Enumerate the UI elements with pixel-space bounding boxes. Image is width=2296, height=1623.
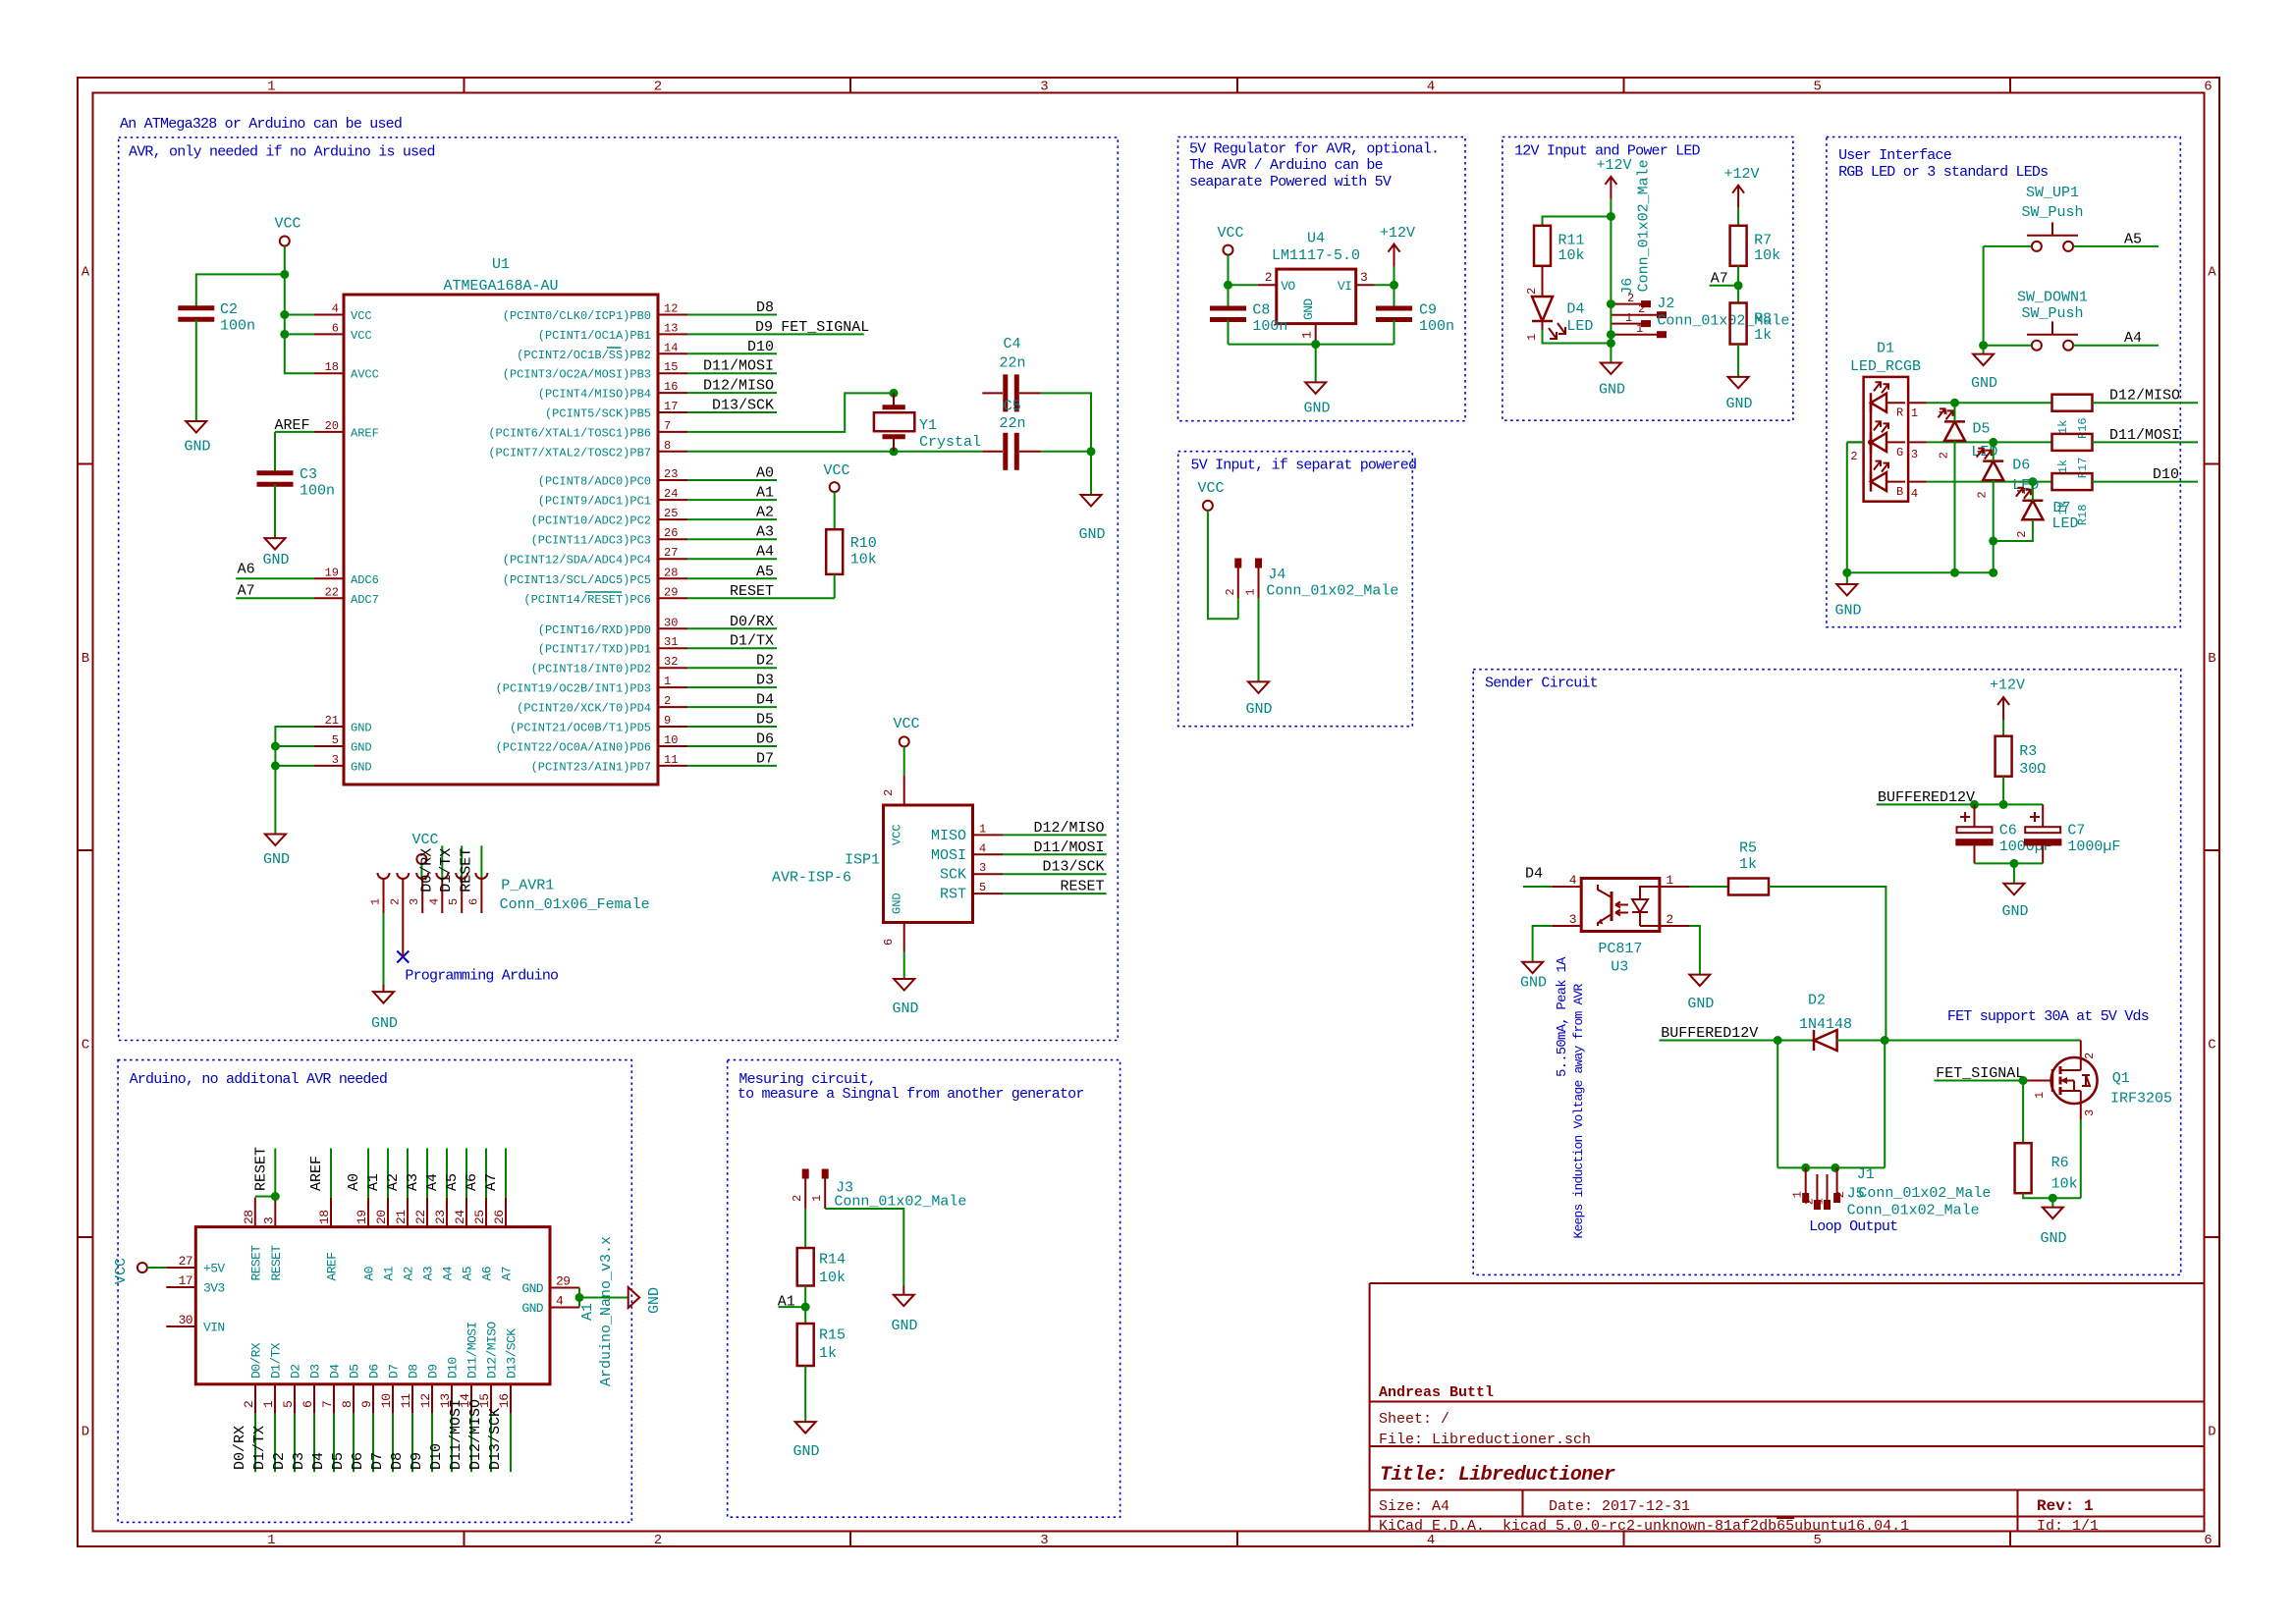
svg-text:3: 3 — [408, 898, 421, 905]
A1 pin 23 (A4) top — [446, 1198, 448, 1227]
junction GND (A1) — [575, 1293, 584, 1302]
wire LED GND rail — [1847, 571, 1994, 573]
svg-text:(PCINT13/SCL/ADC5)PC5: (PCINT13/SCL/ADC5)PC5 — [503, 573, 651, 587]
wire loop right down — [1884, 1041, 1886, 1168]
svg-text:30: 30 — [664, 616, 678, 629]
wire to ground (12V input) — [1610, 344, 1612, 363]
ground (P_AVR1) — [373, 992, 394, 1003]
svg-text:100n: 100n — [300, 483, 335, 500]
U1 pin PC6 RESET overline — [585, 591, 623, 593]
connector ISP1 AVR-ISP-6 body — [884, 805, 973, 923]
U1 pin 25 ((PCINT10/ADC2)PC2) right — [658, 518, 687, 520]
svg-text:U3: U3 — [1611, 958, 1628, 975]
D1 internal led G — [1870, 432, 1873, 452]
svg-text:2: 2 — [1850, 450, 1857, 463]
svg-text:J2: J2 — [1657, 296, 1674, 312]
svg-text:10k: 10k — [2051, 1176, 2078, 1193]
svg-text:1k: 1k — [1754, 327, 1772, 344]
svg-text:Conn_01x06_Female: Conn_01x06_Female — [500, 896, 650, 913]
svg-text:D5: D5 — [348, 1365, 362, 1379]
U1 pin 16 ((PCINT4/MISO)PB4) right — [658, 392, 687, 394]
svg-text:26: 26 — [492, 1211, 507, 1224]
svg-text:8: 8 — [664, 439, 671, 453]
junction D7 row — [2028, 477, 2037, 486]
wire P_AVR1 pin1 to GND — [383, 913, 385, 984]
A1 pin 10 (D7) bottom — [392, 1384, 394, 1414]
wire A1 to label D12/MISO — [490, 1414, 492, 1472]
D1 pin 2 (common) — [1847, 441, 1864, 443]
svg-text:5: 5 — [1813, 80, 1821, 95]
svg-text:IRF3205: IRF3205 — [2110, 1090, 2172, 1107]
svg-text:15: 15 — [664, 360, 678, 374]
svg-text:D7: D7 — [756, 750, 774, 767]
5V Regulator dashed box — [1178, 137, 1466, 421]
wire U1 XTAL2 to crystal bottom — [687, 451, 894, 453]
svg-text:(PCINT18/INT0)PD2: (PCINT18/INT0)PD2 — [531, 663, 651, 676]
A1 pin 29 (GND) right — [550, 1287, 579, 1289]
svg-text:22: 22 — [413, 1211, 428, 1224]
junction +12V/R11 — [1607, 212, 1615, 221]
connector J4 Conn_01x02_Male pin2 — [1234, 559, 1241, 568]
svg-text:D3: D3 — [756, 673, 774, 689]
wire D6 to GND rail — [1993, 480, 1995, 572]
svg-text:RESET: RESET — [1060, 879, 1104, 895]
led D7 — [2022, 500, 2043, 503]
U1 pin 14 ((PCINT2/OC1B/SS)PB2) right — [658, 352, 687, 354]
P_AVR1 pin 4 socket — [436, 873, 448, 879]
svg-text:VCC: VCC — [274, 216, 301, 233]
svg-text:(PCINT3/OC2A/MOSI)PB3: (PCINT3/OC2A/MOSI)PB3 — [503, 368, 651, 382]
svg-text:D8: D8 — [407, 1365, 421, 1379]
svg-text:GND: GND — [1301, 298, 1316, 320]
D1 pin 1 — [1908, 402, 1927, 404]
power symbol VCC (U4) — [1224, 245, 1233, 255]
wire A1 label to A1 — [387, 1149, 389, 1198]
svg-text:R14: R14 — [819, 1251, 846, 1268]
P_AVR1 pin 2 socket — [397, 873, 409, 879]
svg-text:D5: D5 — [756, 712, 774, 729]
wire P_AVR1 to label RESET — [480, 845, 482, 878]
svg-text:Andreas Buttl: Andreas Buttl — [1379, 1384, 1494, 1401]
transistor Q1 IRF3205 — [2051, 1057, 2098, 1104]
frame column ticks bottom — [464, 1532, 465, 1547]
ISP1 pin 2 (VCC) top — [903, 776, 905, 805]
svg-text:A0: A0 — [346, 1173, 362, 1191]
svg-text:2: 2 — [654, 80, 662, 95]
svg-text:Size: A4: Size: A4 — [1379, 1498, 1449, 1515]
svg-text:GND: GND — [892, 1001, 918, 1017]
A1 pin 22 (A3) top — [426, 1198, 428, 1227]
svg-text:R7: R7 — [1754, 233, 1772, 249]
svg-text:19: 19 — [355, 1211, 369, 1224]
svg-text:4: 4 — [332, 302, 339, 316]
junction J6 pin2 — [1607, 299, 1615, 308]
P_AVR1 pin 5 socket — [456, 873, 467, 879]
svg-text:Loop Output: Loop Output — [1809, 1218, 1897, 1235]
U1 pin 7 ((PCINT6/XTAL1/TOSC1)PB6) right — [658, 431, 687, 433]
svg-text:3: 3 — [1911, 448, 1918, 461]
svg-text:C2: C2 — [220, 301, 238, 318]
ground (R8) — [1728, 377, 1749, 389]
led D1 LED_RCGB body — [1864, 377, 1909, 502]
svg-text:A3: A3 — [756, 524, 774, 541]
svg-text:+12V: +12V — [1990, 677, 2025, 694]
svg-text:1: 1 — [664, 675, 671, 688]
svg-text:A1: A1 — [382, 1266, 397, 1280]
svg-text:A4: A4 — [2124, 330, 2142, 347]
wire SW_DOWN1 left — [1984, 345, 2032, 347]
svg-text:SW_DOWN1: SW_DOWN1 — [2017, 289, 2088, 305]
svg-text:(PCINT2/OC1B/SS)PB2: (PCINT2/OC1B/SS)PB2 — [517, 349, 651, 362]
wire GND rail down — [1090, 452, 1092, 495]
svg-text:GND: GND — [891, 1318, 917, 1334]
svg-text:D8: D8 — [389, 1452, 406, 1470]
wire U1 XTAL1 to crystal — [687, 393, 894, 432]
svg-text:P_AVR1: P_AVR1 — [501, 878, 554, 894]
A1 pin 18 (AREF) top — [330, 1198, 332, 1227]
optocoupler U3 PC817 body — [1581, 879, 1660, 932]
svg-text:9: 9 — [664, 714, 671, 728]
U1 pin 9 ((PCINT21/OC0B/T1)PD5) right — [658, 726, 687, 728]
svg-text:J1: J1 — [1857, 1166, 1875, 1183]
ground (R15) — [795, 1422, 816, 1434]
svg-text:J4: J4 — [1268, 567, 1285, 583]
svg-text:D5: D5 — [330, 1452, 347, 1470]
wire C3 to GND — [274, 484, 276, 538]
junction J2 pin1 — [1607, 330, 1615, 339]
svg-text:D2: D2 — [1808, 993, 1826, 1009]
junction switch GND — [1979, 341, 1988, 350]
wire VCC to ISP1 pin2 — [903, 746, 905, 776]
svg-text:22: 22 — [325, 585, 339, 599]
svg-text:FET_SIGNAL: FET_SIGNAL — [1936, 1065, 2024, 1082]
svg-text:D1/TX: D1/TX — [438, 848, 455, 893]
svg-text:19: 19 — [325, 566, 339, 579]
wire VCC to VO net — [1228, 255, 1230, 286]
svg-text:3: 3 — [979, 861, 986, 875]
frame row ticks left — [78, 463, 93, 465]
wire RESET label to A1 — [274, 1149, 276, 1198]
wire GND rail (U4) — [1229, 344, 1394, 346]
svg-text:AVR, only needed if no Arduino: AVR, only needed if no Arduino is used — [129, 144, 435, 161]
svg-text:D0/RX: D0/RX — [232, 1426, 248, 1470]
svg-text:AREF: AREF — [325, 1253, 340, 1281]
A1 pin 26 (A7) top — [505, 1198, 507, 1227]
wire AREF to C3 — [274, 432, 276, 472]
AVR section dashed box — [119, 137, 1119, 1041]
svg-text:BUFFERED12V: BUFFERED12V — [1661, 1025, 1758, 1042]
wire A1 to label D0/RX — [254, 1414, 256, 1472]
U1 pin 5 (GND) left — [314, 745, 344, 747]
svg-text:D4: D4 — [310, 1452, 327, 1470]
wire to ground (caps) — [2013, 863, 2015, 883]
wire A1 to label D3 — [313, 1414, 315, 1472]
svg-text:D4: D4 — [1566, 301, 1584, 318]
svg-text:2: 2 — [2015, 531, 2029, 538]
U1 pin 4 (VCC) left — [314, 314, 344, 316]
svg-text:A2: A2 — [385, 1173, 402, 1191]
svg-text:RESET: RESET — [458, 848, 474, 893]
wire U1 to label D3 — [687, 686, 777, 688]
ISP1 pin 6 (GND) bottom — [903, 923, 905, 952]
wire A1 to label D6 — [372, 1414, 374, 1472]
svg-text:C6: C6 — [1999, 822, 2017, 839]
svg-text:+5V: +5V — [203, 1262, 225, 1276]
wire switch commons — [1983, 246, 1985, 346]
svg-text:1: 1 — [369, 898, 383, 905]
svg-text:(PCINT20/XCK/T0)PD4: (PCINT20/XCK/T0)PD4 — [517, 702, 651, 716]
crystal Y1 — [893, 393, 895, 406]
svg-text:C8: C8 — [1252, 302, 1270, 319]
wire A1 to label D10 — [451, 1414, 453, 1472]
svg-text:VCC: VCC — [351, 309, 372, 323]
wire R6 to source rail — [2023, 1193, 2081, 1198]
svg-text:RESET: RESET — [248, 1245, 263, 1281]
U1 pin 3 (GND) left — [314, 765, 344, 767]
wire D2 to Q1 drain rail — [1837, 1040, 2081, 1042]
wire A1 to label D4 — [333, 1414, 335, 1472]
led D4 — [1542, 266, 1544, 297]
ground (LEDs) — [1836, 584, 1857, 596]
svg-text:C5: C5 — [1004, 399, 1021, 415]
svg-text:31: 31 — [664, 635, 678, 649]
svg-text:+12V: +12V — [1723, 166, 1759, 183]
svg-text:1: 1 — [1813, 1198, 1827, 1205]
wire label D4 to U3 pin4 — [1523, 886, 1552, 888]
wire R7 to R8 — [1737, 266, 1739, 303]
wire to ground (Q1) — [2051, 1198, 2053, 1207]
U3 internal transistor — [1611, 892, 1613, 921]
junction RESET (A1) — [271, 1192, 280, 1201]
connector J2 Conn_01x02_Male pin2 — [1611, 314, 1657, 316]
U1 pin 30 ((PCINT16/RXD)PD0) right — [658, 627, 687, 629]
svg-text:D2: D2 — [271, 1452, 288, 1470]
svg-text:J5: J5 — [1847, 1186, 1865, 1203]
svg-text:R8: R8 — [1754, 311, 1772, 328]
svg-text:D11/MOSI: D11/MOSI — [2109, 427, 2180, 444]
svg-text:ISP1: ISP1 — [845, 852, 880, 869]
svg-text:6: 6 — [466, 898, 480, 905]
D1 internal led B — [1870, 472, 1873, 492]
svg-text:R5: R5 — [1739, 840, 1757, 857]
svg-text:D6: D6 — [756, 731, 774, 748]
ground (U3 pin3) — [1522, 962, 1543, 974]
svg-text:C9: C9 — [1419, 302, 1437, 319]
svg-text:(PCINT16/RXD)PD0: (PCINT16/RXD)PD0 — [538, 623, 651, 637]
svg-text:VCC: VCC — [823, 462, 849, 479]
svg-text:C4: C4 — [1004, 336, 1021, 352]
svg-text:Arduino, no additonal AVR need: Arduino, no additonal AVR needed — [130, 1071, 387, 1088]
U1 pin 22 (ADC7) left — [314, 597, 344, 599]
svg-text:29: 29 — [664, 585, 678, 599]
svg-text:(PCINT9/ADC1)PC1: (PCINT9/ADC1)PC1 — [538, 495, 651, 509]
U1 pin 15 ((PCINT3/OC2A/MOSI)PB3) right — [658, 372, 687, 374]
svg-text:2: 2 — [791, 1195, 804, 1202]
svg-text:D9: D9 — [755, 319, 773, 336]
wire U1 to label D12/MISO — [687, 392, 777, 394]
wire U1 to label A5 — [687, 577, 777, 579]
svg-text:(PCINT21/OC0B/T1)PD5: (PCINT21/OC0B/T1)PD5 — [510, 722, 651, 735]
svg-text:10k: 10k — [850, 552, 877, 568]
svg-text:D: D — [2208, 1425, 2215, 1440]
svg-text:GND: GND — [1520, 975, 1547, 992]
wire to ground (LEDs) — [1846, 572, 1848, 584]
ground (A1) — [629, 1287, 640, 1308]
svg-text:ATMEGA168A-AU: ATMEGA168A-AU — [443, 278, 558, 295]
svg-text:D7: D7 — [387, 1365, 402, 1379]
svg-text:25: 25 — [664, 507, 678, 520]
svg-text:A5: A5 — [461, 1267, 475, 1280]
svg-text:2: 2 — [664, 694, 671, 708]
wire C6/C7 bottom rail — [1975, 862, 2044, 864]
svg-text:D13/SCK: D13/SCK — [487, 1408, 504, 1470]
svg-text:GND: GND — [351, 760, 372, 774]
wire R10 to RESET net — [834, 574, 836, 598]
svg-text:23: 23 — [433, 1211, 448, 1224]
svg-text:3: 3 — [1360, 270, 1367, 285]
wire VO to U4 pin2 — [1229, 284, 1258, 286]
connector J4 pin1 — [1255, 559, 1262, 568]
svg-text:1: 1 — [2015, 488, 2029, 495]
svg-text:D13/SCK: D13/SCK — [505, 1328, 519, 1379]
svg-text:ADC6: ADC6 — [351, 573, 379, 587]
power symbol VCC (R10) — [830, 482, 840, 492]
A1 pin 3 (RESET) top — [274, 1198, 276, 1227]
svg-text:(PCINT6/XTAL1/TOSC1)PB6: (PCINT6/XTAL1/TOSC1)PB6 — [488, 426, 651, 440]
wire A0 label to A1 — [367, 1149, 369, 1198]
wire J3 pin2 to R14 — [804, 1209, 806, 1248]
wire loop output rail — [1777, 1166, 1885, 1168]
svg-text:GND: GND — [1599, 382, 1625, 399]
wire U1 to label A0 — [687, 479, 777, 481]
U1 pin 17 ((PCINT5/SCK)PB5) right — [658, 411, 687, 413]
wire VCC to A1 pin27 — [147, 1267, 166, 1269]
svg-text:A7: A7 — [483, 1173, 500, 1191]
power symbol VCC (J4) — [1203, 501, 1213, 511]
junction J5 pin1 — [1801, 1163, 1810, 1172]
svg-text:12: 12 — [418, 1394, 433, 1408]
power symbol +12V (input) — [1605, 177, 1616, 199]
wire label A7 to R7/R8 — [1710, 285, 1739, 287]
wire A1 to label D9 — [431, 1414, 433, 1472]
wire U1 to label D5 — [687, 726, 777, 728]
wire J3 pin1 to GND — [825, 1209, 903, 1286]
junction R3 bottom — [1999, 800, 2008, 809]
U1 pin 10 ((PCINT22/OC0A/AIN0)PD6) right — [658, 745, 687, 747]
A1 pin 2 (D0/RX) bottom — [254, 1384, 256, 1414]
resistor R17 1k — [2052, 434, 2093, 451]
svg-text:(PCINT10/ADC2)PC2: (PCINT10/ADC2)PC2 — [531, 514, 651, 528]
svg-text:10k: 10k — [1558, 247, 1585, 264]
wire U1 to label D10 — [687, 352, 777, 354]
wire C8 bottom — [1228, 320, 1230, 345]
svg-text:SW_UP1: SW_UP1 — [2026, 185, 2079, 201]
wire D7 top — [2032, 482, 2034, 501]
wire D1 pin2 stub — [1847, 441, 1864, 443]
wire A1 to label D1/TX — [274, 1414, 276, 1472]
connector J1 pin2 — [1836, 1167, 1838, 1193]
connector J5 pin2 — [1816, 1174, 1818, 1200]
capacitor C4 22n — [982, 392, 1003, 394]
svg-text:LED_RCGB: LED_RCGB — [1850, 358, 1921, 375]
svg-text:BUFFERED12V: BUFFERED12V — [1878, 789, 1975, 806]
junction GND pin5 — [271, 742, 280, 751]
svg-text:seaparate Powered with 5V: seaparate Powered with 5V — [1189, 174, 1392, 190]
wire D1 pin3 row to R17 — [1927, 441, 2052, 443]
svg-text:AREF: AREF — [275, 417, 310, 434]
svg-text:1: 1 — [1938, 408, 1951, 415]
svg-text:VCC: VCC — [893, 716, 919, 732]
junction crystal bottom — [890, 447, 899, 456]
svg-text:13: 13 — [664, 321, 678, 335]
svg-text:KiCad E.D.A. kicad 5.0.0-rc2-: KiCad E.D.A. kicad 5.0.0-rc2-unknown-81a… — [1379, 1518, 1909, 1535]
wire R18 to label D10 — [2093, 481, 2199, 483]
P_AVR1 pin 3 socket — [416, 873, 428, 879]
svg-text:A1: A1 — [579, 1303, 596, 1321]
svg-text:5: 5 — [447, 898, 461, 905]
svg-text:GND: GND — [1687, 996, 1714, 1012]
svg-text:27: 27 — [664, 546, 678, 560]
Mesuring circuit dashed box — [728, 1060, 1121, 1518]
U1 pin 6 (VCC) left — [314, 333, 344, 335]
U1 pin 13 ((PCINT1/OC1A)PB1) right — [658, 333, 687, 335]
svg-text:3: 3 — [1569, 912, 1576, 927]
junction GND node (12V input) — [1607, 339, 1615, 348]
svg-text:LED: LED — [2052, 515, 2079, 532]
wire U3 pin2 to GND — [1689, 926, 1700, 975]
wire A1 to label D8 — [411, 1414, 413, 1472]
svg-text:Sheet: /: Sheet: / — [1379, 1411, 1449, 1428]
svg-text:VI: VI — [1338, 279, 1351, 294]
svg-text:R15: R15 — [819, 1326, 846, 1343]
wire U1 pin29 RESET to R10 — [687, 597, 835, 599]
svg-text:3: 3 — [261, 1217, 276, 1224]
svg-text:29: 29 — [556, 1274, 570, 1289]
svg-text:(PCINT23/AIN1)PD7: (PCINT23/AIN1)PD7 — [531, 760, 651, 774]
svg-text:1: 1 — [267, 1533, 275, 1548]
junction loop left — [1774, 1036, 1782, 1045]
svg-text:2: 2 — [1224, 588, 1237, 595]
wire RESET branch — [255, 1196, 276, 1198]
svg-text:VCC: VCC — [1217, 225, 1243, 242]
svg-text:6: 6 — [2204, 80, 2212, 95]
U4 pin 2 (VO) — [1258, 284, 1277, 286]
svg-text:4: 4 — [1569, 873, 1577, 888]
svg-text:A4: A4 — [424, 1173, 441, 1191]
svg-text:D0/RX: D0/RX — [249, 1342, 264, 1379]
svg-text:A1: A1 — [778, 1294, 795, 1311]
junction D6 GND rail — [1989, 568, 1997, 577]
ground (C2) — [186, 421, 206, 433]
junction D7/D6 column — [1989, 537, 1997, 546]
svg-text:R: R — [1896, 406, 1903, 420]
svg-text:A6: A6 — [238, 561, 255, 577]
connector J6 pin1 — [1611, 323, 1641, 325]
wire ISP1 to label RESET — [1003, 893, 1107, 894]
svg-text:GND: GND — [1725, 396, 1752, 412]
svg-text:B: B — [2208, 651, 2215, 667]
svg-text:C: C — [2208, 1038, 2215, 1054]
A1 pin 17 (3V3) left — [166, 1286, 195, 1288]
svg-text:3: 3 — [1040, 1533, 1048, 1548]
svg-text:GND: GND — [646, 1287, 663, 1314]
svg-text:C: C — [82, 1038, 89, 1054]
svg-text:22n: 22n — [1000, 415, 1026, 432]
wire label A7 to U1 pin22 — [236, 597, 314, 599]
wire A1 to label D7 — [392, 1414, 394, 1472]
wire D1 common to GND rail — [1846, 442, 1848, 572]
A1 pin 13 (D10) bottom — [451, 1384, 453, 1414]
